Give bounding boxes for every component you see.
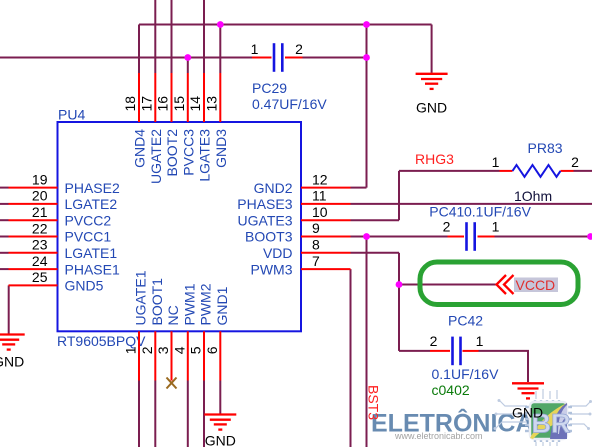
pin 4 <box>187 331 189 380</box>
svg-text:NC: NC <box>165 305 181 325</box>
svg-text:UGATE2: UGATE2 <box>148 129 164 184</box>
ground symbol top (GND net of wire A) <box>416 74 448 89</box>
pin 10 <box>301 219 351 221</box>
svg-text:PR83: PR83 <box>528 140 563 156</box>
pin 15 <box>187 73 189 122</box>
svg-text:PWM3: PWM3 <box>251 261 293 277</box>
pin 21 <box>9 219 58 221</box>
IC body PU4 <box>58 122 302 331</box>
svg-text:5: 5 <box>188 346 204 354</box>
wire: pin 13 riser <box>219 25 221 74</box>
svg-text:GND: GND <box>0 354 24 370</box>
wire: UGATE3 pin 10 horizontal <box>351 219 400 221</box>
wire: PR83 pin2 to right edge <box>574 170 592 172</box>
wire: pin 1 drop <box>138 381 140 447</box>
pin 5 <box>203 331 205 380</box>
svg-text:6: 6 <box>204 346 220 354</box>
capacitor PC42 plates <box>451 337 454 366</box>
ground symbol left (GND5) <box>0 335 25 350</box>
svg-text:2: 2 <box>139 346 155 354</box>
wire: GND net drop to ground symbol <box>431 25 433 73</box>
svg-text:GND: GND <box>512 405 543 421</box>
left pin names <box>65 180 120 294</box>
svg-text:LGATE3: LGATE3 <box>197 129 213 182</box>
junction dot BOOT3/BST3 <box>363 233 370 240</box>
resistor PR83 zigzag <box>513 165 561 177</box>
junction dot VDD/VCCD <box>396 281 403 288</box>
svg-text:17: 17 <box>138 96 154 112</box>
svg-text:BST3: BST3 <box>365 385 381 420</box>
wire: net to pin 19 <box>0 187 9 189</box>
svg-text:GND: GND <box>205 432 236 447</box>
junction dot pin15/wireB <box>184 54 191 61</box>
pin 2 <box>154 331 156 380</box>
wire: PVCC net horizontal (wire B) left of PC29 <box>0 57 252 59</box>
wire: riser pin 14 to top edge <box>203 0 205 73</box>
wire: to PC42 pin 2 <box>399 350 430 352</box>
pin 17 <box>154 73 156 122</box>
svg-text:0.1UF/16V: 0.1UF/16V <box>432 366 500 382</box>
wire: VDD vertical to PC42 <box>398 253 400 351</box>
junction dot GND2 riser/wireA <box>363 21 370 28</box>
pin 20 <box>9 203 58 205</box>
svg-text:LGATE1: LGATE1 <box>65 245 118 261</box>
svg-text:GND: GND <box>416 100 447 116</box>
wire: net to pin 21 <box>0 219 9 221</box>
wire: GND2 pin 12 vertical to wire A <box>366 25 368 188</box>
svg-text:PHASE3: PHASE3 <box>237 196 292 212</box>
svg-text:1: 1 <box>492 219 500 235</box>
pin 19 <box>9 187 58 189</box>
svg-text:VCCD: VCCD <box>516 277 556 293</box>
pin 6 <box>219 331 221 380</box>
pin 13 <box>219 73 221 122</box>
pin 16 <box>171 73 173 122</box>
wire: pin 15 riser to wire B <box>187 58 189 74</box>
svg-text:8: 8 <box>312 237 320 253</box>
pin 8 <box>301 252 351 254</box>
svg-text:BOOT2: BOOT2 <box>164 129 180 177</box>
svg-text:7: 7 <box>312 253 320 269</box>
wire: pin 4 drop <box>187 381 189 447</box>
wire: pin 18 riser <box>138 25 140 74</box>
svg-text:14: 14 <box>187 96 203 112</box>
svg-text:3: 3 <box>155 346 171 354</box>
wire: PVCC net wire B right of PC29 <box>303 57 367 59</box>
svg-text:PVCC2: PVCC2 <box>65 212 112 228</box>
wire: pin 2 drop <box>154 381 156 447</box>
svg-text:PWM2: PWM2 <box>198 283 214 325</box>
svg-text:25: 25 <box>32 269 48 285</box>
capacitor PC41 plates <box>465 222 468 251</box>
wire: GND5 pin 25 to ground <box>8 285 10 333</box>
svg-text:GND1: GND1 <box>214 286 230 325</box>
svg-text:PVCC3: PVCC3 <box>180 129 196 176</box>
wire: PC42 pin 1 to ground <box>479 351 529 382</box>
svg-text:10: 10 <box>312 204 328 220</box>
svg-text:23: 23 <box>32 237 48 253</box>
svg-text:24: 24 <box>32 253 48 269</box>
svg-text:2: 2 <box>571 154 579 170</box>
svg-text:1Ohm: 1Ohm <box>514 188 552 204</box>
junction dot wireB/GND2 riser <box>363 54 370 61</box>
left pin numbers <box>32 171 48 285</box>
watermark logo ELETRONICA BR <box>371 389 592 446</box>
svg-text:15: 15 <box>171 96 187 112</box>
svg-text:1: 1 <box>251 41 259 57</box>
capacitor PC29 plates <box>273 43 276 72</box>
svg-text:LGATE2: LGATE2 <box>65 196 118 212</box>
svg-text:0.1UF/16V: 0.1UF/16V <box>464 204 532 220</box>
svg-text:0.47UF/16V: 0.47UF/16V <box>252 96 327 112</box>
right pin numbers <box>312 171 328 268</box>
svg-text:GND4: GND4 <box>132 129 148 168</box>
capacitor PC41 pin stubs <box>448 236 465 238</box>
bottom pin numbers <box>123 346 220 354</box>
svg-text:18: 18 <box>122 96 138 112</box>
wire: GND1 pin 6 to ground <box>219 381 221 414</box>
svg-text:20: 20 <box>32 188 48 204</box>
pin 25 <box>9 284 58 286</box>
pin 9 <box>301 236 351 238</box>
svg-text:PC41: PC41 <box>429 204 464 220</box>
svg-text:1: 1 <box>476 333 484 349</box>
wire: BST3 vertical <box>366 237 368 447</box>
pin 11 <box>301 203 351 205</box>
svg-text:UGATE1: UGATE1 <box>133 270 149 325</box>
wire: net to pin 24 <box>0 268 9 270</box>
wire: VDD pin 8 horizontal <box>351 252 400 254</box>
wire: PHASE3 pin 11 to right edge <box>351 203 592 205</box>
wire: VCCD stub <box>399 284 497 286</box>
wire: riser pin 17 to top edge <box>154 0 156 73</box>
pin 7 <box>301 268 351 270</box>
top pin names <box>132 129 229 184</box>
bottom pin names <box>133 270 230 325</box>
ground symbol PC42 <box>512 383 544 398</box>
top pin numbers <box>122 96 219 112</box>
capacitor PC42 pin stubs <box>430 350 450 352</box>
svg-text:1: 1 <box>492 154 500 170</box>
svg-text:9: 9 <box>312 220 320 236</box>
svg-text:BOOT1: BOOT1 <box>149 278 165 326</box>
pin 1 <box>138 331 140 380</box>
pin 23 <box>9 252 58 254</box>
svg-text:RT9605BPQV: RT9605BPQV <box>57 333 146 349</box>
svg-text:c0402: c0402 <box>432 382 470 398</box>
no-connect X on pin 3 <box>167 378 177 389</box>
wire: net to pin 22 <box>0 236 9 238</box>
svg-text:PWM1: PWM1 <box>181 283 197 325</box>
ground symbol bottom (GND1) <box>204 415 236 430</box>
svg-text:11: 11 <box>312 188 327 204</box>
svg-text:2: 2 <box>443 219 451 235</box>
pin 18 <box>138 73 140 122</box>
wire: net to pin 20 <box>0 203 9 205</box>
resistor PR83 pin stubs <box>500 170 513 172</box>
pin 24 <box>9 268 58 270</box>
svg-text:16: 16 <box>155 96 171 112</box>
wire: GND net horizontal (wire A) <box>139 24 432 26</box>
pin 12 <box>301 187 351 189</box>
wire: riser pin 16 to top edge <box>171 0 173 73</box>
pin 3 <box>171 331 173 380</box>
svg-text:1: 1 <box>123 346 139 354</box>
wire: pin 5 drop <box>203 381 205 447</box>
svg-text:BOOT3: BOOT3 <box>245 229 293 245</box>
svg-text:PC42: PC42 <box>448 313 483 329</box>
svg-text:GND3: GND3 <box>213 129 229 168</box>
green highlight ellipse around VCCD <box>420 262 578 305</box>
svg-text:21: 21 <box>32 204 48 220</box>
svg-text:2: 2 <box>430 333 438 349</box>
wire: net to pin 23 <box>0 252 9 254</box>
svg-text:PVCC1: PVCC1 <box>65 229 112 245</box>
svg-text:12: 12 <box>312 171 328 187</box>
wire: pin 12 horizontal <box>351 187 367 189</box>
svg-text:PHASE2: PHASE2 <box>65 180 120 196</box>
junction dot pin13/wireA <box>217 21 224 28</box>
svg-text:PHASE1: PHASE1 <box>65 261 120 277</box>
wire: UGATE3 riser to RHG3 <box>398 171 400 220</box>
svg-text:www.eletronicabr.com: www.eletronicabr.com <box>394 431 483 441</box>
wire: BOOT3 pin 9 to PC41 and right edge <box>351 236 448 238</box>
junction dot BOOT3 right edge <box>587 233 592 240</box>
svg-text:13: 13 <box>203 96 219 112</box>
wire: RHG3 net to PR83 <box>399 170 500 172</box>
svg-text:VDD: VDD <box>263 245 293 261</box>
svg-text:UGATE3: UGATE3 <box>238 212 293 228</box>
svg-text:PC29: PC29 <box>252 80 287 96</box>
capacitor PC29 pin stubs <box>252 57 272 59</box>
pin 14 <box>203 73 205 122</box>
svg-text:2: 2 <box>295 41 303 57</box>
wire: PWM3 pin 7 drop to bottom edge <box>350 269 352 447</box>
svg-text:22: 22 <box>32 220 48 236</box>
svg-text:GND2: GND2 <box>254 180 293 196</box>
VCCD off-page chevrons <box>497 275 507 294</box>
svg-text:4: 4 <box>171 346 187 354</box>
svg-text:RHG3: RHG3 <box>415 151 454 167</box>
pin 22 <box>9 236 58 238</box>
svg-text:PU4: PU4 <box>58 106 85 122</box>
right pin names <box>237 180 292 277</box>
VCCD net label <box>514 278 558 293</box>
svg-text:19: 19 <box>32 171 48 187</box>
svg-text:GND5: GND5 <box>65 278 104 294</box>
